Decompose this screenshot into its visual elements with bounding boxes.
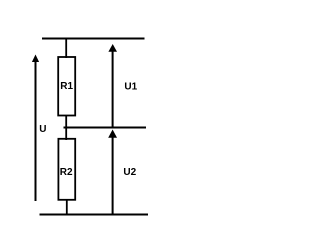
wire from R1 to middle node <box>65 115 67 128</box>
wire bottom rail <box>40 214 149 216</box>
svg-text:U2: U2 <box>123 167 136 178</box>
wire top rail <box>42 38 145 40</box>
voltage arrow U1 <box>108 44 117 127</box>
resistor R1 <box>58 57 75 116</box>
wire from R2 to bottom rail <box>66 200 68 215</box>
svg-text:R1: R1 <box>60 81 73 92</box>
svg-text:R2: R2 <box>60 167 73 178</box>
svg-text:U1: U1 <box>124 81 137 92</box>
resistor R2 <box>58 139 75 200</box>
wire from middle node to R2 <box>65 128 67 141</box>
svg-text:U: U <box>39 124 46 135</box>
node middle tap wire <box>64 127 147 129</box>
voltage arrow U <box>32 55 39 202</box>
voltage arrow U2 <box>108 130 117 215</box>
wire from top rail to R1 <box>65 39 67 58</box>
